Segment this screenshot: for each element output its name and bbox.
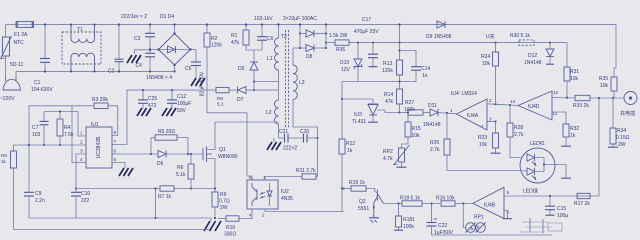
svg-text:2×22μF 100AC: 2×22μF 100AC bbox=[283, 16, 317, 22]
diode D8b bbox=[300, 47, 306, 49]
svg-text:R7 1k: R7 1k bbox=[158, 194, 172, 200]
svg-text:R19 1k: R19 1k bbox=[349, 180, 365, 186]
svg-text:5: 5 bbox=[507, 190, 510, 195]
svg-text:104-630V: 104-630V bbox=[31, 87, 53, 93]
wire opto pin1 to R11 bbox=[265, 177, 302, 181]
svg-text:222: 222 bbox=[81, 198, 90, 204]
svg-text:1.5k 2W: 1.5k 2W bbox=[329, 33, 348, 39]
common-mode choke T1 bbox=[62, 32, 101, 64]
svg-text:5D-11: 5D-11 bbox=[10, 62, 23, 68]
LED indicator circle bbox=[520, 148, 555, 183]
svg-text:~220V: ~220V bbox=[0, 96, 15, 102]
svg-text:R3 20k: R3 20k bbox=[92, 97, 108, 103]
wire clamp tap to winding bbox=[254, 81, 279, 83]
wire plug right pin to bottom AC rail bbox=[16, 71, 173, 77]
resistor R19 1k bbox=[351, 186, 366, 191]
svg-text:R24: R24 bbox=[481, 54, 490, 60]
wire NTC column bbox=[5, 25, 7, 37]
svg-text:TL431: TL431 bbox=[352, 119, 366, 125]
wire green anode from R26 bbox=[520, 170, 527, 173]
resistor R181 100k bbox=[398, 204, 400, 217]
svg-text:1k: 1k bbox=[1, 159, 7, 164]
svg-text:C9: C9 bbox=[35, 191, 42, 197]
svg-text:0.7Ω: 0.7Ω bbox=[219, 199, 230, 205]
svg-text:10k: 10k bbox=[482, 61, 491, 67]
svg-text:5.1k: 5.1k bbox=[176, 172, 186, 178]
wire HV rail right corner bbox=[614, 25, 616, 77]
resistor R11 2.7k bbox=[302, 174, 316, 179]
wire IU4D pin13 bbox=[552, 112, 566, 124]
zener D10 12V bbox=[357, 42, 359, 44]
capacitor C12 100uF 50V bbox=[171, 89, 173, 91]
capacitor C10 222 bbox=[75, 187, 77, 189]
LED green bbox=[527, 168, 535, 175]
svg-text:4: 4 bbox=[80, 157, 83, 162]
resistor R1 47k bbox=[245, 25, 247, 30]
svg-text:120k: 120k bbox=[211, 43, 222, 49]
svg-text:10k: 10k bbox=[412, 133, 421, 139]
svg-text:1N4148: 1N4148 bbox=[524, 60, 542, 66]
svg-text:8: 8 bbox=[114, 130, 117, 135]
svg-text:3: 3 bbox=[489, 117, 492, 122]
svg-text:12: 12 bbox=[553, 90, 559, 95]
svg-text:3: 3 bbox=[80, 149, 83, 154]
fuse F1 bbox=[16, 22, 34, 28]
svg-text:1: 1 bbox=[263, 175, 266, 180]
wire pin2 rail bbox=[14, 144, 87, 146]
bridge rectifier D1-D4 bbox=[159, 34, 191, 66]
svg-text:LED绿: LED绿 bbox=[523, 188, 538, 195]
resistor R18 5.1k bbox=[402, 201, 422, 206]
svg-text:W8N090: W8N090 bbox=[218, 154, 238, 160]
capacitor C21 bbox=[284, 134, 286, 143]
ground (Q2 emitter) bbox=[369, 217, 379, 219]
svg-text:R33 2k: R33 2k bbox=[573, 103, 589, 109]
svg-text:4: 4 bbox=[249, 213, 252, 218]
svg-text:R26: R26 bbox=[430, 140, 439, 146]
wire top AC/HV rail bbox=[6, 24, 16, 26]
resistor R14 47k bbox=[397, 89, 403, 104]
svg-text:R30 5.1k: R30 5.1k bbox=[510, 33, 531, 39]
resistor R5 20R (parallel loop) bbox=[151, 138, 155, 155]
svg-text:C10: C10 bbox=[81, 191, 90, 197]
svg-text:47k: 47k bbox=[231, 40, 240, 46]
wire IU4D pin12 out bbox=[552, 97, 575, 100]
transistor Q2 5551 bbox=[343, 187, 345, 189]
svg-text:UC3842B: UC3842B bbox=[96, 136, 102, 158]
svg-text:R11 2.7k: R11 2.7k bbox=[296, 168, 316, 174]
resistor R31 10k bbox=[566, 43, 568, 67]
resistor R15 10k bbox=[407, 111, 409, 113]
svg-text:2.7k: 2.7k bbox=[514, 132, 524, 138]
svg-text:100μ: 100μ bbox=[557, 213, 568, 219]
svg-text:IU4B: IU4B bbox=[484, 203, 496, 209]
LED red bbox=[527, 154, 535, 161]
resistor R27 100k bbox=[400, 112, 409, 114]
svg-text:R27: R27 bbox=[405, 100, 414, 106]
wire current sense row bbox=[76, 188, 160, 190]
svg-text:IU4: LM324: IU4: LM324 bbox=[451, 91, 477, 97]
svg-text:C15: C15 bbox=[557, 206, 566, 212]
svg-text:+: + bbox=[481, 124, 484, 129]
svg-text:2W: 2W bbox=[220, 205, 228, 211]
wire Y-cap midpoint to ground bbox=[135, 50, 151, 54]
resistor R9 0.7R 2W bbox=[212, 192, 218, 207]
resistor R30 5.1k bbox=[494, 42, 496, 44]
op-amp IU4D bbox=[518, 91, 552, 120]
ground (C25) bbox=[137, 108, 151, 116]
wire pin5 to ground bbox=[112, 163, 125, 169]
svg-text:5: 5 bbox=[249, 175, 252, 180]
svg-text:0.15Ω: 0.15Ω bbox=[616, 135, 630, 141]
capacitor C1 104-630V bbox=[44, 25, 46, 58]
wire pin3 route to current sense bbox=[76, 154, 86, 189]
wire D8 left node bbox=[299, 25, 301, 48]
svg-text:100k: 100k bbox=[403, 224, 414, 230]
watermark faded print bbox=[520, 218, 562, 233]
wire drain to primary bottom bbox=[215, 121, 279, 123]
svg-text:L1: L1 bbox=[267, 56, 273, 62]
svg-text:120k: 120k bbox=[382, 68, 393, 74]
potentiometer RP1 4.7k bbox=[463, 204, 465, 228]
wire opto pin2 to secondary return bbox=[265, 209, 344, 212]
svg-text:10k: 10k bbox=[479, 142, 488, 148]
op-amp IU4B bbox=[473, 187, 504, 218]
svg-text:D5: D5 bbox=[238, 66, 245, 72]
ground (primary bottom) bbox=[267, 142, 281, 150]
secondary rail with R36 bbox=[326, 42, 335, 44]
resistor R23 10k bbox=[495, 122, 497, 134]
svg-text:1: 1 bbox=[450, 108, 453, 113]
IC IU1 UC3842 bbox=[86, 127, 112, 168]
wire Q2 collector row bbox=[384, 203, 403, 205]
wire IU4B pin6 stub bbox=[504, 211, 508, 219]
svg-text:NTC: NTC bbox=[14, 40, 25, 46]
wire primary ground rail bbox=[29, 217, 206, 219]
diode D11 1N4148 bbox=[430, 109, 438, 116]
resistor R34 0.15R 2W bbox=[612, 98, 614, 128]
resistor R7 1k bbox=[160, 186, 174, 191]
resistor R33 2k bbox=[575, 95, 590, 100]
wire LED cathodes bbox=[535, 158, 545, 172]
resistor R16 10k bbox=[430, 202, 432, 204]
resistor R4 7.5k bbox=[57, 119, 63, 136]
resistor R32 1k bbox=[563, 124, 569, 137]
svg-text:14: 14 bbox=[510, 99, 516, 104]
capacitor C20 bbox=[303, 134, 305, 143]
svg-text:U充: U充 bbox=[486, 33, 495, 40]
wire IU4B pin5 to bottom rail bbox=[504, 195, 599, 197]
capacitor C2 bbox=[118, 25, 120, 59]
capacitor C4 bbox=[145, 52, 155, 54]
svg-text:RP1: RP1 bbox=[474, 215, 484, 221]
svg-text:R2: R2 bbox=[211, 36, 218, 42]
svg-text:1n: 1n bbox=[422, 73, 428, 79]
wire IU4A pin2 node bbox=[487, 104, 518, 106]
svg-text:7: 7 bbox=[114, 139, 117, 144]
svg-text:R18 5.1k: R18 5.1k bbox=[400, 196, 421, 202]
wire pin6 gate drive bbox=[112, 153, 158, 155]
svg-text:50V: 50V bbox=[177, 108, 187, 114]
svg-text:D12: D12 bbox=[528, 53, 537, 59]
svg-text:10k: 10k bbox=[570, 76, 579, 82]
svg-text:D9 1N5408: D9 1N5408 bbox=[426, 34, 452, 40]
svg-text:1N4148: 1N4148 bbox=[423, 122, 441, 128]
svg-text:IU3: IU3 bbox=[354, 112, 362, 118]
svg-text:充电插: 充电插 bbox=[620, 110, 635, 117]
svg-text:R23: R23 bbox=[478, 135, 487, 141]
resistor R8 1k (left) bbox=[13, 145, 15, 151]
svg-text:D7: D7 bbox=[237, 97, 244, 103]
svg-text:2: 2 bbox=[489, 98, 492, 103]
ground (C12) bbox=[162, 108, 176, 116]
svg-text:5.1: 5.1 bbox=[217, 102, 224, 107]
svg-text:Q1: Q1 bbox=[219, 147, 226, 153]
shunt regulator IU3 TL431 bbox=[372, 99, 374, 104]
svg-text:C14: C14 bbox=[421, 66, 430, 72]
capacitor C5 bulk 82uF 400V bbox=[195, 50, 197, 62]
svg-text:4.7k: 4.7k bbox=[383, 156, 393, 162]
svg-text:82μF 400V: 82μF 400V bbox=[200, 71, 206, 96]
svg-text:7.5k: 7.5k bbox=[64, 132, 74, 138]
potentiometer RP2 4.7k bbox=[399, 148, 405, 162]
svg-text:L2: L2 bbox=[266, 110, 272, 116]
svg-text:R32: R32 bbox=[570, 126, 579, 132]
svg-text:L3: L3 bbox=[299, 80, 305, 86]
svg-text:4N35: 4N35 bbox=[281, 196, 293, 202]
svg-text:R181: R181 bbox=[403, 217, 415, 223]
svg-text:2: 2 bbox=[80, 140, 83, 145]
svg-text:R16 10k: R16 10k bbox=[436, 196, 455, 202]
svg-text:T1: T1 bbox=[77, 27, 83, 33]
capacitor C9 2.2n bbox=[28, 106, 30, 192]
capacitor C6 bbox=[261, 25, 263, 37]
wire secondary sense rail bbox=[342, 81, 416, 83]
svg-text:1k: 1k bbox=[570, 133, 576, 139]
capacitor C22 1uF/50V bbox=[431, 204, 433, 223]
svg-text:IU2: IU2 bbox=[281, 189, 289, 195]
svg-text:R13: R13 bbox=[383, 61, 392, 67]
svg-text:47k: 47k bbox=[385, 99, 394, 105]
svg-text:C21: C21 bbox=[279, 129, 288, 135]
svg-text:R8: R8 bbox=[1, 153, 7, 158]
svg-text:R6: R6 bbox=[177, 165, 184, 171]
svg-text:R15: R15 bbox=[412, 126, 421, 132]
wire pot bottom rail bbox=[432, 234, 553, 236]
svg-text:1: 1 bbox=[80, 131, 83, 136]
svg-text:R12: R12 bbox=[346, 141, 355, 147]
svg-text:103-1kV: 103-1kV bbox=[254, 16, 273, 22]
transformer core bbox=[285, 30, 287, 128]
svg-text:472: 472 bbox=[148, 103, 157, 109]
svg-text:D6: D6 bbox=[157, 161, 164, 167]
resistor R10 330R bbox=[218, 218, 226, 220]
svg-text:10k: 10k bbox=[600, 83, 609, 89]
optocoupler IU2 4N35 bbox=[247, 180, 278, 209]
wire R7 node to ground rail bbox=[155, 189, 157, 219]
wire pin7 VCC bbox=[112, 90, 143, 144]
diode D6 bbox=[158, 151, 166, 158]
svg-text:C5: C5 bbox=[185, 66, 192, 72]
svg-text:2W: 2W bbox=[618, 142, 626, 148]
diode D8a bbox=[300, 33, 306, 35]
capacitor C7 103 bbox=[43, 112, 45, 122]
svg-text:C20: C20 bbox=[300, 129, 309, 135]
wire primary bottom to C21 bbox=[279, 124, 285, 138]
svg-text:12V: 12V bbox=[341, 67, 351, 73]
svg-text:R10: R10 bbox=[226, 225, 235, 231]
thermistor NTC 5D-11 bbox=[3, 37, 10, 56]
svg-text:100k: 100k bbox=[404, 107, 415, 113]
svg-text:IU1: IU1 bbox=[91, 122, 99, 128]
svg-text:C3: C3 bbox=[134, 36, 141, 42]
svg-text:100μF: 100μF bbox=[177, 101, 191, 107]
svg-text:R34: R34 bbox=[617, 128, 626, 134]
svg-text:C2: C2 bbox=[108, 69, 115, 75]
svg-text:C7: C7 bbox=[32, 125, 39, 131]
svg-text:2.7k: 2.7k bbox=[430, 147, 440, 153]
resistor R2 120k bbox=[206, 25, 208, 33]
wire socket line down to R17 bbox=[598, 98, 600, 196]
svg-text:D1 D4: D1 D4 bbox=[160, 14, 174, 20]
svg-text:5551: 5551 bbox=[358, 206, 369, 212]
svg-text:R28: R28 bbox=[514, 125, 523, 131]
svg-text:1k: 1k bbox=[347, 148, 353, 154]
svg-text:C4: C4 bbox=[136, 63, 143, 69]
wire D8 right node bbox=[325, 25, 327, 48]
svg-text:6: 6 bbox=[114, 149, 117, 154]
svg-text:470μF 25V: 470μF 25V bbox=[354, 29, 379, 35]
svg-text:R1: R1 bbox=[231, 33, 238, 39]
capacitor C14 1n bbox=[400, 51, 417, 67]
resistor R6 5.1k bbox=[190, 153, 192, 155]
svg-text:LED红: LED红 bbox=[530, 140, 545, 147]
svg-text:R17 2k: R17 2k bbox=[574, 201, 590, 207]
wire R2 to opto pin5 bbox=[207, 47, 252, 180]
svg-text:C1: C1 bbox=[34, 80, 41, 86]
svg-text:222×2: 222×2 bbox=[283, 146, 297, 152]
svg-text:IU4D: IU4D bbox=[528, 104, 540, 110]
svg-text:R9: R9 bbox=[220, 192, 227, 198]
ground (Y-caps) bbox=[127, 55, 141, 63]
VCC rail to transformer bbox=[143, 89, 216, 91]
ground (main primary) bbox=[204, 221, 221, 231]
svg-text:103: 103 bbox=[32, 132, 41, 138]
wire pin4 route bbox=[72, 106, 86, 163]
svg-text:C6: C6 bbox=[267, 36, 274, 42]
capacitor C3 bbox=[149, 25, 151, 33]
svg-text:R5 20Ω: R5 20Ω bbox=[158, 129, 175, 135]
svg-text:222/1kv × 2: 222/1kv × 2 bbox=[121, 14, 147, 20]
resistor R12 1k bbox=[341, 99, 343, 139]
resistor R24 10k bbox=[495, 43, 497, 52]
capacitor C25 472 bbox=[142, 89, 144, 91]
wire L3 bottom column bbox=[317, 138, 319, 177]
svg-text:R4: R4 bbox=[64, 125, 71, 131]
svg-text:C22: C22 bbox=[438, 223, 447, 229]
charging socket bbox=[624, 92, 637, 105]
resistor R28 2.7k bbox=[509, 105, 511, 123]
transistor Q1 W8N090 MOSFET bbox=[202, 148, 204, 160]
svg-text:C12: C12 bbox=[177, 94, 186, 100]
svg-text:R14: R14 bbox=[384, 92, 393, 98]
svg-text:2: 2 bbox=[262, 213, 265, 218]
diode D5 bbox=[253, 50, 255, 62]
svg-text:C25: C25 bbox=[148, 96, 157, 102]
diode D12 1N4148 bbox=[549, 43, 551, 49]
svg-text:5: 5 bbox=[114, 157, 117, 162]
svg-text:R36: R36 bbox=[336, 47, 345, 53]
svg-text:R8: R8 bbox=[217, 96, 223, 101]
svg-text:D10: D10 bbox=[340, 60, 349, 66]
resistor R36 1.5k 2W bbox=[335, 40, 349, 45]
resistor R13 120k bbox=[398, 42, 400, 44]
wire bottom-most rail bbox=[14, 229, 211, 231]
resistor R26 2.7k bbox=[446, 113, 448, 139]
svg-text:IU4A: IU4A bbox=[467, 113, 479, 119]
wire IU4A pin3 node bbox=[487, 121, 496, 123]
svg-text:330Ω: 330Ω bbox=[224, 232, 236, 238]
svg-text:R31: R31 bbox=[570, 69, 579, 75]
diode D7 bbox=[237, 87, 239, 94]
ground (IC pin5) bbox=[119, 168, 133, 176]
AC plug 220V bbox=[3, 79, 21, 90]
svg-text:1N5408 × 4: 1N5408 × 4 bbox=[146, 75, 172, 81]
resistor R8 5.1 bbox=[216, 87, 229, 92]
svg-text:C17: C17 bbox=[362, 17, 371, 23]
svg-text:R35: R35 bbox=[599, 76, 608, 82]
transformer secondary L3 bbox=[293, 65, 297, 99]
svg-text:RP2: RP2 bbox=[383, 149, 393, 155]
svg-text:T2: T2 bbox=[281, 34, 287, 40]
resistor R17 2k bbox=[577, 193, 590, 198]
wire pin1 node bbox=[44, 112, 86, 137]
svg-text:D11: D11 bbox=[428, 103, 437, 109]
svg-text:D8: D8 bbox=[306, 54, 313, 60]
svg-text:Q2: Q2 bbox=[359, 199, 366, 205]
svg-text:2.2n: 2.2n bbox=[35, 198, 45, 204]
diode D9 1N5408 bbox=[437, 21, 445, 28]
svg-text:F1 2A: F1 2A bbox=[14, 32, 28, 38]
resistor R35 10k bbox=[611, 77, 617, 91]
capacitor C15 100u bbox=[549, 196, 551, 206]
